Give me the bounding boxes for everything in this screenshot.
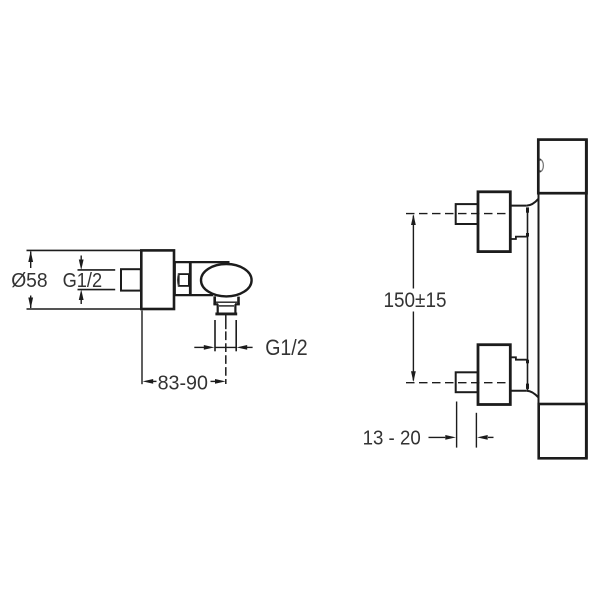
svg-text:Ø58: Ø58 (11, 269, 47, 292)
svg-text:13 - 20: 13 - 20 (363, 427, 421, 450)
svg-text:G1/2: G1/2 (63, 269, 103, 292)
svg-text:83-90: 83-90 (158, 372, 208, 394)
svg-text:G1/2: G1/2 (265, 336, 307, 360)
svg-text:150±15: 150±15 (383, 289, 446, 312)
